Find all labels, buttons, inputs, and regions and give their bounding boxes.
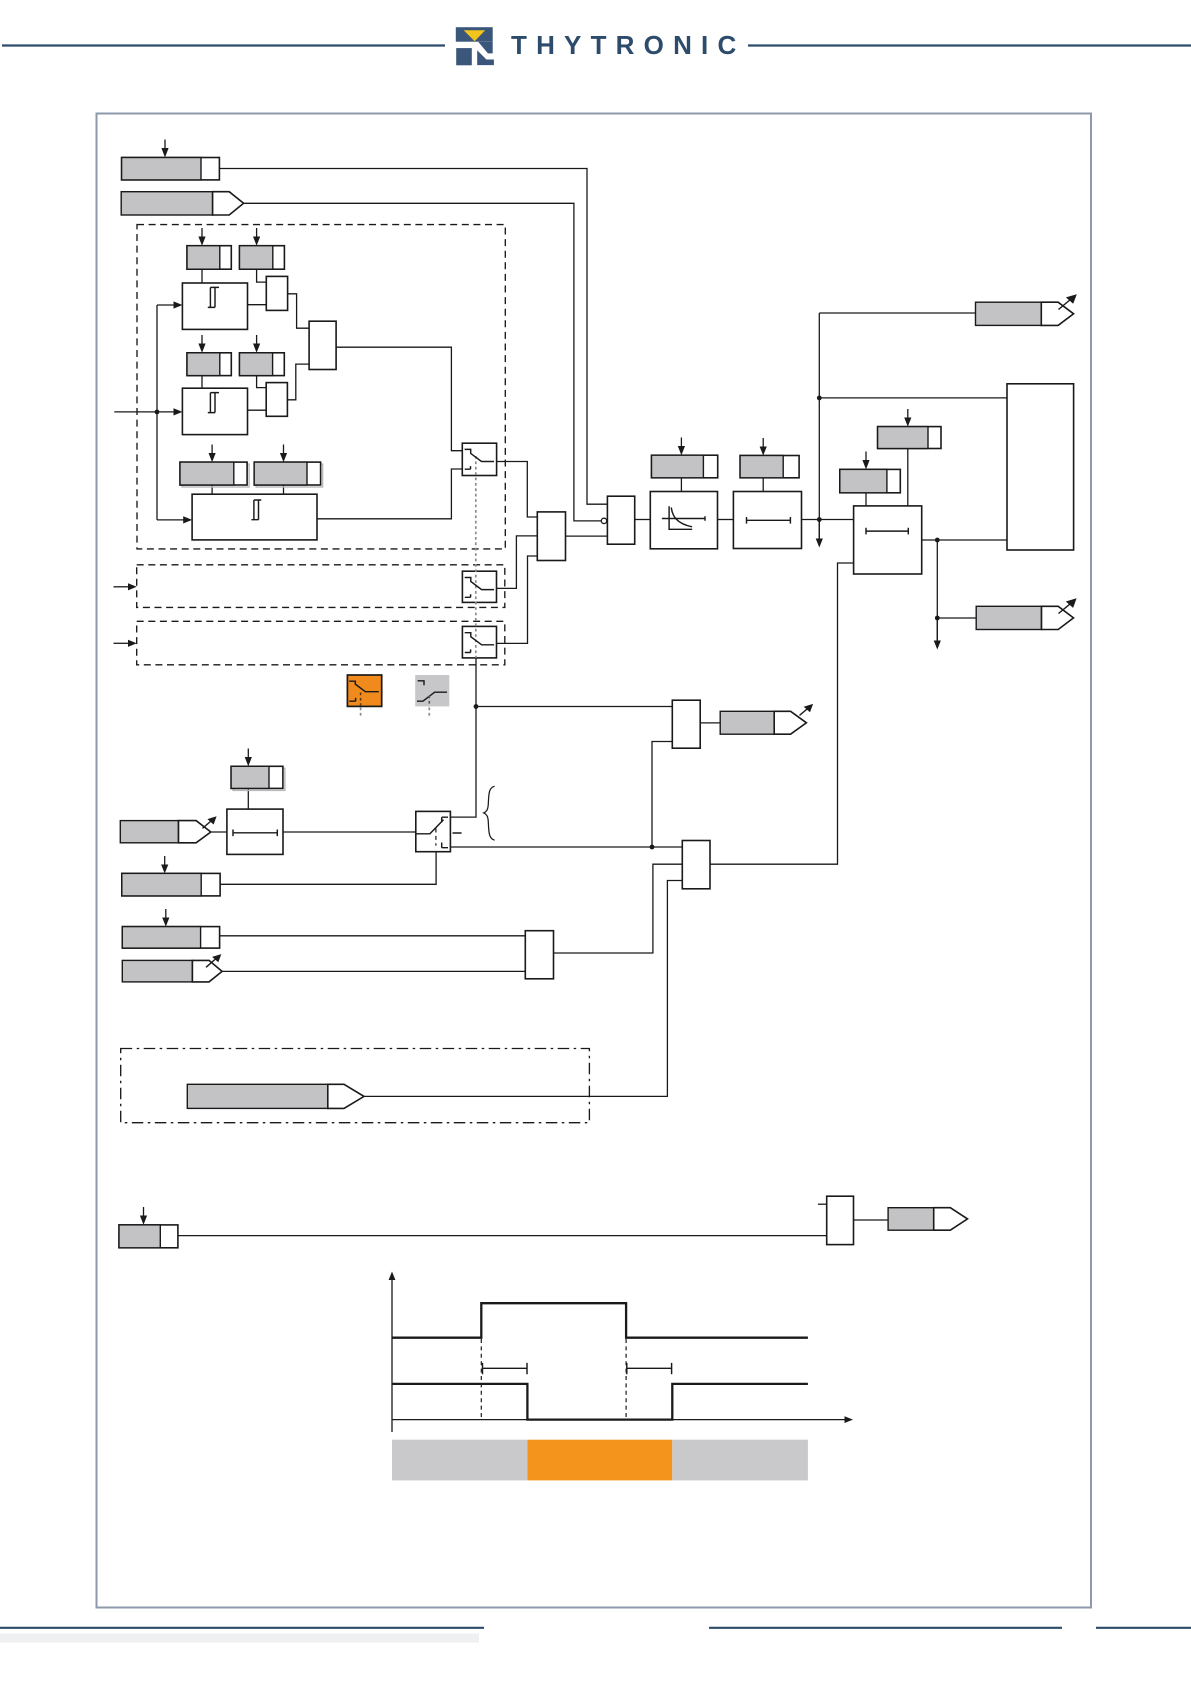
- svg-text:THYTRONIC: THYTRONIC: [511, 30, 745, 60]
